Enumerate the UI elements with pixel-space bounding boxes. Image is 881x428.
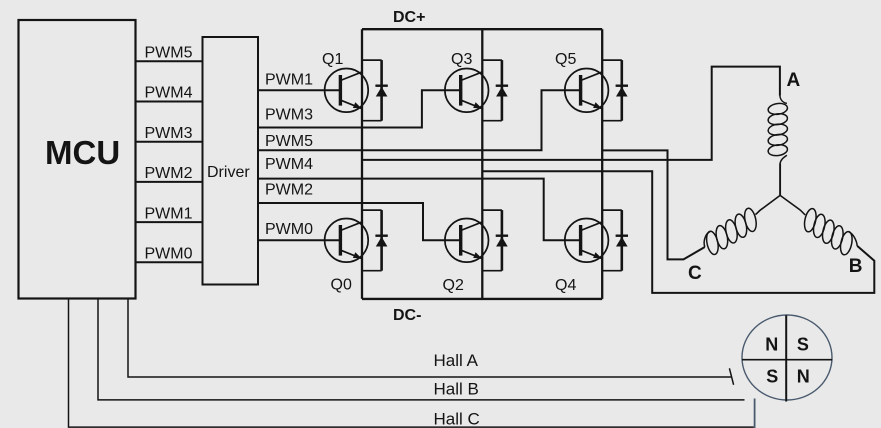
svg-text:PWM3: PWM3	[145, 125, 193, 142]
half-bridge column 3	[601, 29, 603, 299]
svg-text:PWM2: PWM2	[145, 165, 193, 182]
wire PWM5 MCU to Driver	[136, 60, 202, 62]
svg-text:C: C	[688, 263, 702, 284]
winding B (inductor coil)	[803, 208, 858, 256]
svg-text:S: S	[766, 367, 778, 387]
svg-text:S: S	[797, 335, 809, 355]
hall sensor horizontal divider	[742, 359, 832, 361]
wire phase B bridge to winding	[482, 171, 874, 293]
wire PWM2 Driver to bridge	[259, 203, 461, 240]
transistor Q4	[565, 219, 609, 263]
svg-text:Q1: Q1	[322, 51, 343, 68]
wire PWM1 Driver to bridge	[259, 89, 341, 91]
wire PWM1 MCU to Driver	[136, 221, 202, 223]
winding C (inductor coil)	[704, 207, 758, 255]
wire PWM0 MCU to Driver	[136, 261, 202, 263]
wire Hall A	[128, 299, 732, 377]
wire Hall C	[69, 299, 754, 427]
svg-text:Q2: Q2	[443, 277, 464, 294]
wire PWM2 MCU to Driver	[136, 181, 202, 183]
svg-text:PWM4: PWM4	[145, 85, 193, 102]
wire phase C bridge to winding	[602, 150, 705, 259]
svg-text:Q4: Q4	[555, 277, 576, 294]
flyback diode of Q0	[362, 210, 388, 271]
svg-text:PWM4: PWM4	[265, 156, 313, 173]
wire star point to winding C	[755, 195, 780, 214]
svg-text:PWM1: PWM1	[145, 205, 193, 222]
transistor Q5	[565, 69, 609, 113]
transistor Q3	[445, 69, 489, 113]
transistor Q1	[325, 69, 369, 113]
wire winding A to star point	[779, 164, 781, 196]
svg-text:Driver: Driver	[207, 164, 250, 181]
svg-text:PWM5: PWM5	[145, 45, 193, 62]
half-bridge column 2	[481, 29, 483, 299]
svg-text:Hall C: Hall C	[434, 410, 480, 428]
svg-text:MCU: MCU	[45, 134, 120, 171]
svg-text:Q3: Q3	[451, 51, 472, 68]
flyback diode of Q3	[482, 60, 508, 121]
hall sensor vertical divider	[785, 315, 787, 401]
svg-text:PWM1: PWM1	[265, 72, 313, 89]
flyback diode of Q4	[602, 210, 628, 271]
hall sensor rotor disc	[742, 315, 832, 400]
flyback diode of Q2	[482, 210, 508, 271]
flyback diode of Q5	[602, 60, 628, 121]
wire PWM4 Driver to bridge	[259, 179, 581, 241]
wire phase A bridge to winding	[362, 67, 780, 160]
wire PWM3 Driver to bridge	[259, 90, 461, 127]
svg-text:A: A	[787, 70, 801, 91]
winding A (inductor coil)	[767, 96, 788, 164]
flyback diode of Q1	[362, 60, 388, 121]
Driver box	[203, 37, 259, 285]
wire PWM5 Driver to bridge	[259, 90, 581, 150]
svg-text:N: N	[765, 335, 778, 355]
svg-text:PWM0: PWM0	[145, 246, 193, 263]
Hall A probe tick	[729, 368, 733, 385]
wire Hall B	[98, 299, 745, 400]
DC+ bus	[362, 28, 602, 30]
svg-text:Hall B: Hall B	[434, 380, 479, 399]
hall sensor lead	[754, 399, 756, 428]
wire PWM3 MCU to Driver	[136, 141, 202, 143]
MCU box	[19, 20, 136, 299]
svg-text:PWM0: PWM0	[265, 221, 313, 238]
wire PWM4 MCU to Driver	[136, 101, 202, 103]
svg-text:PWM5: PWM5	[265, 133, 313, 150]
svg-text:DC+: DC+	[393, 9, 425, 26]
svg-text:PWM2: PWM2	[265, 182, 313, 199]
svg-text:Q0: Q0	[331, 277, 352, 294]
svg-text:Hall A: Hall A	[434, 351, 479, 370]
svg-text:Q5: Q5	[555, 51, 576, 68]
transistor Q2	[445, 219, 489, 263]
DC- bus	[362, 298, 602, 300]
svg-text:PWM3: PWM3	[265, 107, 313, 124]
half-bridge column 1	[361, 29, 363, 299]
wire star point to winding B	[780, 195, 805, 214]
svg-text:N: N	[797, 367, 810, 387]
svg-text:DC-: DC-	[393, 307, 421, 324]
wire PWM0 Driver to bridge	[259, 239, 341, 241]
svg-text:B: B	[849, 256, 863, 277]
transistor Q0	[325, 219, 369, 263]
